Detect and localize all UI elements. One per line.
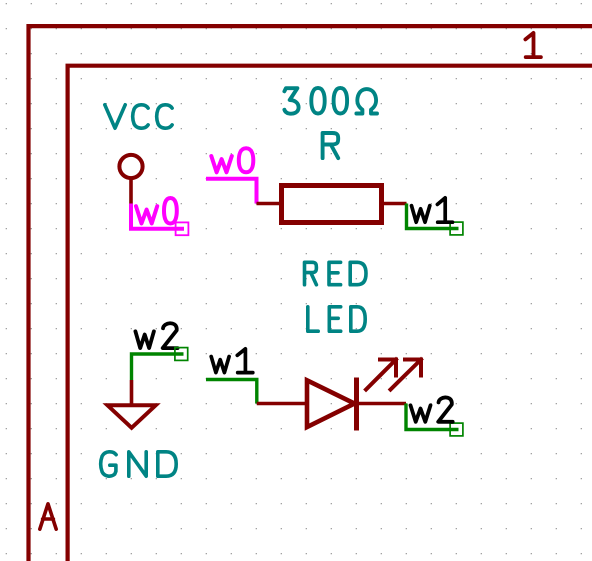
LED diode (anode pin, triangle, cathode bar, cathode pin) xyxy=(257,378,406,431)
resistor R (300Ω) body and pins xyxy=(257,186,407,223)
net label w0 (at resistor wire) xyxy=(211,148,253,172)
value label LED xyxy=(308,307,365,331)
wire w2 (from LED cathode, down then right) xyxy=(406,404,459,430)
wire w0 (label to resistor R left pin) xyxy=(206,179,257,204)
wire w1 (label to LED anode, right then down) xyxy=(206,380,257,404)
dangling wire end marker w1 xyxy=(450,222,463,235)
value label RED xyxy=(305,262,367,284)
net label w2 (at GND wire) xyxy=(135,323,177,348)
wire w0 (from VCC pin, down then right) xyxy=(131,204,184,229)
dangling wire end marker w2 (GND side) xyxy=(175,348,188,361)
net label w1 (at LED input wire) xyxy=(211,349,253,373)
dangling wire end marker w2 (LED side) xyxy=(450,423,463,436)
ground symbol GND (stem and triangle) xyxy=(108,380,156,428)
LED light emission arrow 2 xyxy=(391,360,422,390)
LED light emission arrow 1 xyxy=(366,360,396,390)
dangling wire end marker w0 xyxy=(176,222,189,235)
label GND xyxy=(101,452,176,476)
value label 300Ω xyxy=(284,88,377,114)
wire w1 (from resistor right pin, down then right) xyxy=(407,204,459,229)
power symbol VCC xyxy=(105,105,172,204)
net label w0 (at VCC wire) xyxy=(136,198,177,224)
net label w2 (at LED output wire) xyxy=(411,397,453,421)
reference label R xyxy=(323,133,339,158)
net label w1 (at resistor output wire) xyxy=(412,198,453,222)
wire w2 (dangling end left then down to GND) xyxy=(132,354,184,380)
